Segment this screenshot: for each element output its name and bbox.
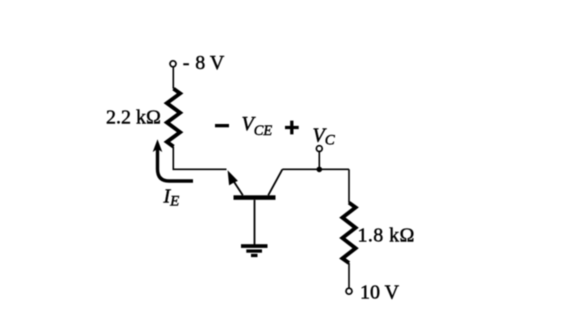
- wire right vertical: [348, 169, 350, 203]
- base lead: [254, 200, 256, 245]
- emitter arrowhead: [228, 170, 238, 185]
- svg-text:10 V: 10 V: [360, 282, 400, 304]
- terminal V_C: [316, 146, 322, 152]
- emitter lead: [233, 180, 243, 195]
- current arrow I_E: [153, 139, 193, 181]
- wire emitter lead: [173, 147, 226, 170]
- wire top lead: [172, 67, 174, 89]
- svg-text:1.8 kΩ: 1.8 kΩ: [358, 225, 415, 247]
- label plus of V_CE: [285, 121, 299, 135]
- collector lead: [268, 169, 282, 195]
- svg-text:2.2 kΩ: 2.2 kΩ: [106, 106, 161, 128]
- resistor R_E 2.2k zigzag: [167, 89, 180, 147]
- svg-text:-8 V: -8 V: [183, 52, 225, 74]
- wire V_C stub: [318, 152, 320, 170]
- base bar: [234, 195, 276, 200]
- wire collector horizontal: [282, 168, 349, 170]
- ground: [241, 244, 268, 257]
- terminal 10V: [346, 288, 352, 294]
- wire bottom lead: [348, 263, 350, 288]
- terminal -8V: [170, 61, 176, 67]
- transistor Q1: [228, 169, 283, 245]
- node C junction dot: [317, 167, 323, 173]
- label minus of V_CE: [215, 124, 229, 127]
- resistor R_C 1.8k zigzag: [342, 203, 355, 263]
